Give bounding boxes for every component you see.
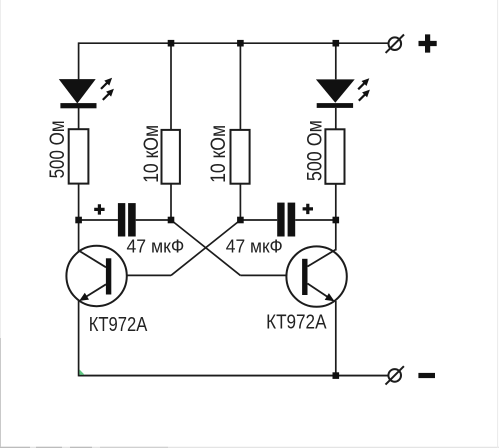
svg-text:КТ972А: КТ972А: [266, 312, 327, 334]
svg-text:КТ972А: КТ972А: [89, 314, 148, 336]
svg-text:500 Ом: 500 Ом: [46, 120, 69, 178]
svg-text:10 кОм: 10 кОм: [207, 125, 230, 183]
svg-text:47 мкФ: 47 мкФ: [127, 236, 185, 257]
svg-text:10 кОм: 10 кОм: [140, 125, 163, 183]
svg-text:47 мкФ: 47 мкФ: [226, 236, 283, 257]
svg-text:500 Ом: 500 Ом: [304, 120, 327, 181]
